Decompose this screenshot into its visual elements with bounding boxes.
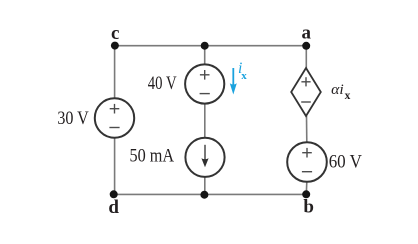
label b — [303, 196, 314, 217]
node top middle (junction dot) — [201, 42, 209, 50]
wire right upper (a to diamond) — [305, 46, 307, 68]
label a — [301, 23, 311, 44]
wire right mid (diamond to 60V) — [306, 116, 308, 143]
label ix (cyan) — [238, 60, 247, 82]
wire right lower (60V to b) — [305, 182, 308, 195]
node b (junction dot) — [302, 190, 310, 198]
current ix arrow (cyan) — [230, 68, 237, 95]
wire middle lower (50mA to bottom wire) — [204, 177, 206, 195]
current source 50mA (circle with down arrow) — [185, 138, 224, 177]
svg-text:c: c — [111, 23, 119, 44]
svg-text:50 mA: 50 mA — [130, 146, 175, 166]
svg-text:60 V: 60 V — [329, 153, 363, 173]
node bottom middle (junction dot) — [200, 191, 208, 199]
wire top (c to a) — [115, 45, 307, 47]
svg-text:40 V: 40 V — [148, 74, 177, 94]
node a (junction dot) — [302, 42, 310, 50]
svg-text:d: d — [108, 197, 119, 218]
svg-text:x: x — [241, 70, 247, 82]
label alpha ix — [331, 82, 350, 102]
node d (junction dot) — [110, 190, 118, 198]
label 40 V — [148, 74, 177, 94]
svg-text:30 V: 30 V — [57, 109, 89, 129]
label c — [111, 23, 119, 44]
svg-text:x: x — [345, 90, 351, 102]
dependent source alpha-ix (diamond symbol) — [291, 68, 321, 116]
label d — [108, 197, 119, 218]
node c (junction dot) — [111, 42, 119, 50]
label 60 V — [329, 153, 363, 173]
wire middle upper (top wire to 40V) — [204, 46, 206, 65]
label 30 V — [57, 109, 89, 129]
wire bottom (d to b) — [114, 193, 307, 195]
voltage source 30V (circle symbol) — [95, 98, 134, 137]
voltage source 60V (circle symbol) — [287, 142, 327, 182]
wire left lower (30V bottom to d) — [114, 138, 116, 195]
svg-text:a: a — [301, 23, 311, 44]
voltage source 40V (circle symbol) — [185, 64, 224, 103]
svg-text:αi: αi — [331, 82, 344, 98]
label 50 mA — [130, 146, 175, 166]
wire left upper (c to 30V top) — [114, 46, 116, 99]
svg-text:b: b — [303, 196, 314, 217]
wire middle mid (40V to 50mA) — [204, 104, 206, 138]
